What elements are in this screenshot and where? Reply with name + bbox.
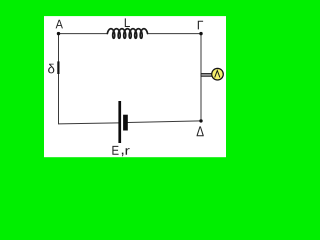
inductor label L xyxy=(125,18,130,27)
node Gamma junction dot xyxy=(199,32,202,35)
green background xyxy=(0,0,272,176)
lamp bulb circle xyxy=(212,68,224,80)
switch delta (closed contact thick bar) xyxy=(57,61,59,74)
wire bottom segment battery to Delta xyxy=(128,121,201,123)
lamp stem wire xyxy=(201,74,212,77)
wire top-right segment inductor to Gamma xyxy=(148,33,202,35)
node Delta label xyxy=(197,126,204,136)
node A junction dot xyxy=(57,32,60,35)
switch label delta xyxy=(48,64,54,74)
white schematic panel xyxy=(44,16,226,157)
inductor L coil xyxy=(107,29,147,39)
wire top-left segment A to inductor xyxy=(59,33,108,35)
battery label E , r xyxy=(112,146,129,156)
wire bottom segment left to battery xyxy=(59,123,119,124)
battery E,r long plate xyxy=(118,101,121,143)
wire left segment A down to bottom xyxy=(58,34,60,124)
node A label xyxy=(56,20,63,29)
node Delta junction dot xyxy=(199,119,202,122)
lamp glyph xyxy=(215,71,220,78)
battery E,r short plate xyxy=(123,115,128,131)
wire right segment Gamma down to Delta xyxy=(200,34,202,121)
node Gamma label xyxy=(198,21,203,30)
